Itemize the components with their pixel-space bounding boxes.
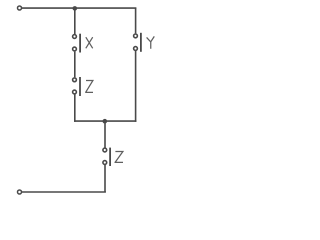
- label Z1: [85, 81, 93, 93]
- junction node J2 on middle rail: [103, 119, 108, 124]
- contact Z1: [73, 77, 80, 96]
- junction node J1 on top wire: [73, 6, 78, 11]
- wire below contact Z1 to middle rail: [74, 95, 76, 122]
- wire left branch upper: [74, 8, 76, 34]
- wire right branch lower: [135, 51, 137, 122]
- wire middle horizontal rail: [74, 120, 136, 122]
- wire middle vertical upper: [104, 121, 106, 147]
- wire top horizontal: [22, 7, 136, 9]
- terminal top-left: [18, 6, 22, 10]
- contact Y: [134, 33, 141, 52]
- label Z2: [115, 152, 124, 163]
- label Y: [147, 36, 155, 48]
- wire right branch upper: [135, 8, 137, 33]
- wire below contact Z2: [104, 165, 106, 192]
- terminal bottom-left: [18, 190, 22, 194]
- wire bottom horizontal: [22, 191, 106, 193]
- contact Z2: [103, 148, 110, 166]
- label X: [86, 37, 93, 48]
- wire between contact X and contact Z1: [74, 52, 76, 78]
- contact X: [73, 34, 81, 53]
